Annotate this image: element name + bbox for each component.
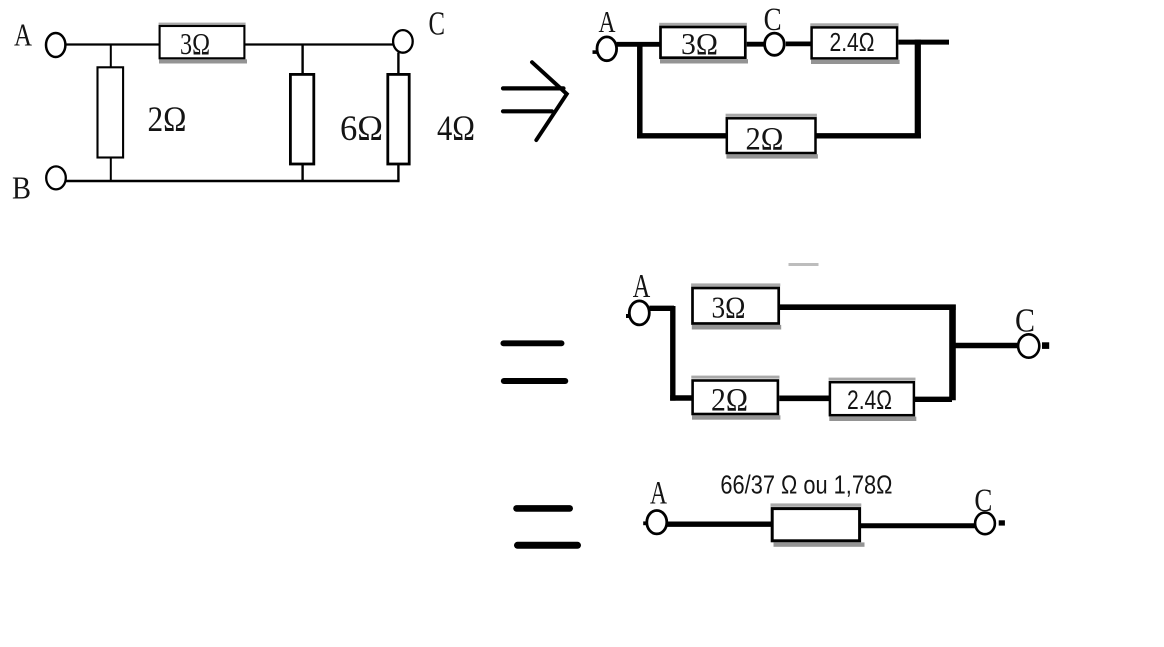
svg-text:2Ω: 2Ω bbox=[148, 99, 187, 139]
svg-text:3Ω: 3Ω bbox=[180, 26, 210, 61]
svg-text:A: A bbox=[14, 17, 32, 53]
svg-text:2Ω: 2Ω bbox=[711, 383, 748, 419]
svg-text:A: A bbox=[650, 475, 667, 511]
svg-text:A: A bbox=[599, 4, 616, 39]
svg-text:3Ω: 3Ω bbox=[712, 290, 746, 325]
svg-text:6Ω: 6Ω bbox=[340, 108, 383, 148]
svg-text:2.4Ω: 2.4Ω bbox=[847, 385, 892, 415]
svg-text:66/37 Ω ou 1,78Ω: 66/37 Ω ou 1,78Ω bbox=[720, 470, 892, 500]
svg-text:3Ω: 3Ω bbox=[681, 26, 718, 61]
svg-text:A: A bbox=[633, 268, 651, 305]
svg-text:2.4Ω: 2.4Ω bbox=[830, 27, 875, 57]
svg-text:C: C bbox=[974, 483, 992, 519]
svg-text:4Ω: 4Ω bbox=[437, 108, 475, 148]
svg-text:B: B bbox=[12, 170, 31, 206]
svg-text:C: C bbox=[1015, 303, 1035, 340]
svg-text:C: C bbox=[764, 2, 782, 38]
svg-text:2Ω: 2Ω bbox=[746, 122, 784, 158]
svg-text:C: C bbox=[429, 6, 446, 43]
